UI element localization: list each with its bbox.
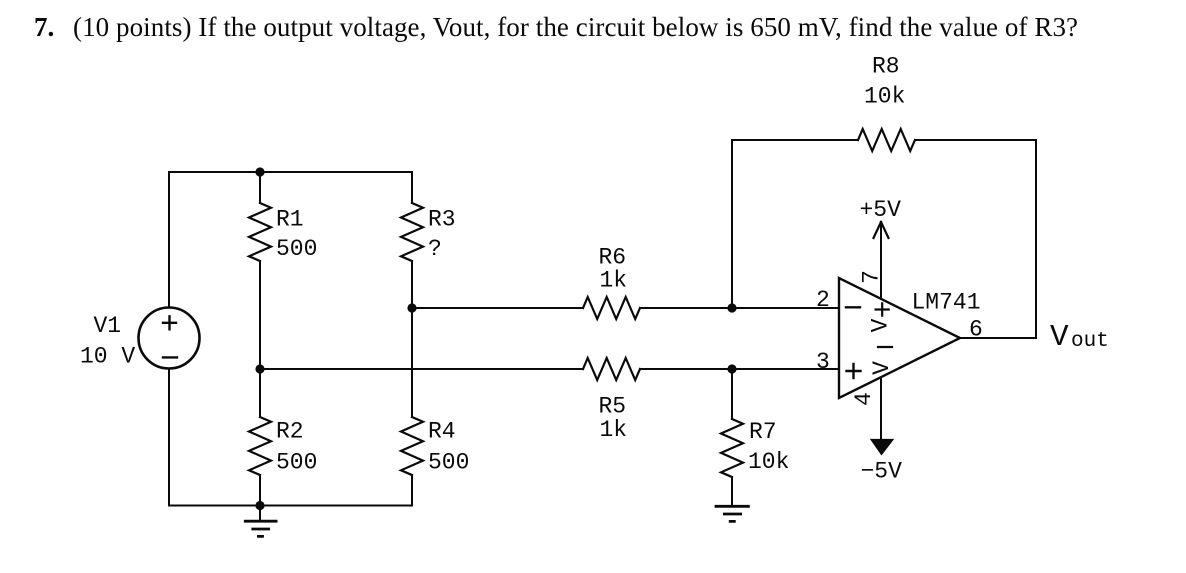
- wire +5V supply lead: [880, 222, 882, 299]
- wire R7 bottom lead: [731, 477, 733, 506]
- wire R1 bottom lead: [259, 261, 261, 369]
- wire R7 top lead: [731, 369, 733, 419]
- op-amp inverting input minus: [846, 306, 860, 308]
- junction node top rail: [255, 167, 264, 176]
- svg-text:R2: R2: [276, 419, 304, 445]
- junction node R7: [727, 364, 736, 373]
- resistor R2: [249, 417, 271, 475]
- wire feedback vertical: [731, 140, 733, 308]
- svg-text:R8: R8: [872, 54, 900, 80]
- svg-text:−5V: −5V: [861, 459, 903, 485]
- svg-text:V: V: [1050, 320, 1069, 355]
- supply pin V+ plus glyph: [876, 303, 889, 315]
- supply pin V- minus glyph: [878, 346, 892, 348]
- wire feedback top right: [915, 139, 1036, 141]
- svg-text:R3: R3: [428, 207, 456, 233]
- junction node R3-R4: [407, 303, 416, 312]
- svg-text:500: 500: [276, 450, 317, 476]
- +5V arrow head: [874, 222, 889, 238]
- svg-text:+5V: +5V: [860, 197, 902, 223]
- svg-text:R7: R7: [749, 419, 777, 445]
- junction node lower mid left: [255, 364, 264, 373]
- resistor R5: [583, 358, 640, 380]
- svg-text:LM741: LM741: [912, 290, 981, 316]
- svg-text:V1: V1: [94, 313, 122, 339]
- svg-text:R4: R4: [428, 419, 456, 445]
- svg-text:6: 6: [969, 317, 983, 343]
- svg-text:7: 7: [859, 270, 885, 284]
- svg-text:V: V: [868, 318, 894, 332]
- wire R3 bottom lead: [411, 261, 413, 308]
- junction node feedback: [727, 303, 736, 312]
- wire lower mid right: [640, 368, 839, 370]
- -5V arrow head: [871, 440, 893, 455]
- wire -5V supply lead: [880, 378, 882, 442]
- resistor R6: [583, 297, 640, 319]
- wire R3 top lead: [411, 172, 413, 203]
- V1 minus sign: [163, 356, 177, 358]
- wire lower mid left: [260, 368, 583, 370]
- svg-text:3: 3: [816, 349, 830, 375]
- wire R4 bottom lead: [411, 475, 413, 506]
- svg-text:out: out: [1071, 330, 1109, 353]
- svg-text:1k: 1k: [600, 268, 628, 294]
- svg-text:2: 2: [816, 287, 830, 313]
- op-amp U1 triangle: [839, 278, 960, 398]
- svg-text:1k: 1k: [600, 417, 628, 443]
- ground left: [259, 506, 261, 522]
- svg-text:V: V: [869, 361, 895, 375]
- resistor R3: [401, 203, 423, 261]
- wire R1 top lead: [259, 172, 261, 203]
- wire output right vertical: [1035, 140, 1037, 338]
- svg-text:R5: R5: [599, 394, 627, 420]
- voltage source V1: [139, 308, 200, 369]
- resistor R4: [401, 417, 423, 475]
- wire left rail upper: [168, 172, 170, 307]
- wire output horizontal: [960, 337, 1036, 339]
- resistor R1: [249, 203, 271, 261]
- wire left rail lower: [168, 369, 170, 506]
- ground R7: [716, 506, 748, 521]
- wire R2 top lead: [259, 369, 261, 417]
- svg-text:10k: 10k: [864, 84, 905, 110]
- wire upper mid right: [640, 307, 839, 309]
- wire upper mid left: [412, 307, 583, 309]
- svg-text:7.(10 points) If the output vo: 7.(10 points) If the output voltage, Vou…: [34, 12, 1078, 42]
- wire bottom rail: [169, 505, 412, 507]
- wire top rail: [169, 171, 412, 173]
- svg-text:500: 500: [276, 236, 317, 262]
- svg-text:R1: R1: [276, 207, 304, 233]
- svg-text:?: ?: [428, 236, 442, 262]
- svg-text:500: 500: [428, 450, 469, 476]
- resistor R8: [858, 129, 915, 151]
- svg-text:4: 4: [851, 392, 877, 406]
- V1 plus sign: [163, 316, 176, 329]
- wire R2 bottom lead: [259, 475, 261, 506]
- wire R4 top lead: [411, 308, 413, 417]
- op-amp non-inverting input plus: [847, 364, 861, 378]
- svg-text:10k: 10k: [748, 449, 789, 475]
- wire feedback top left: [732, 139, 858, 141]
- junction node ground left: [255, 501, 264, 510]
- resistor R7: [721, 419, 743, 477]
- svg-text:10 V: 10 V: [80, 344, 135, 370]
